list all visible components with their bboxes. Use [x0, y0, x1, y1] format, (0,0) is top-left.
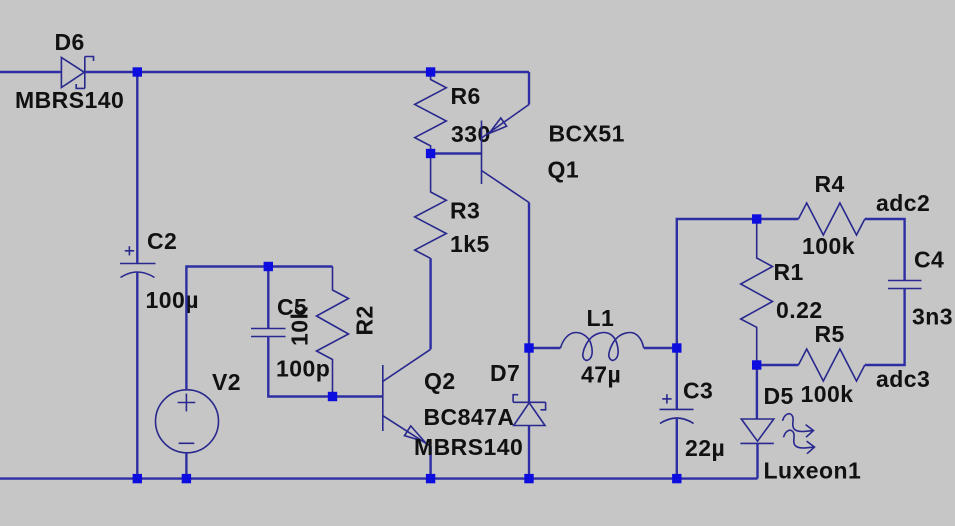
wire R5 left lead — [757, 364, 799, 366]
wire Q1 base — [431, 152, 482, 154]
wire R4 right lead to C4 — [865, 219, 905, 280]
junction node C5 top — [264, 262, 273, 271]
wire top rail left of D6 — [0, 71, 62, 73]
wire output node up — [677, 219, 757, 348]
wire D5 bottom lead — [756, 443, 758, 478]
capacitor C2 — [120, 246, 156, 277]
transistor Q2 — [383, 349, 431, 446]
resistor R2 — [317, 267, 349, 397]
capacitor C3 — [660, 394, 694, 423]
svg-text:100µ: 100µ — [146, 287, 199, 313]
svg-text:D7: D7 — [490, 360, 520, 386]
svg-text:V2: V2 — [212, 369, 241, 395]
svg-text:R1: R1 — [774, 259, 804, 285]
LED D5 — [740, 419, 773, 443]
svg-text:Luxeon1: Luxeon1 — [764, 458, 862, 484]
junction node Q2-rail — [426, 474, 435, 483]
svg-text:R6: R6 — [451, 83, 481, 109]
resistor R4 — [798, 203, 864, 235]
capacitor C4 — [888, 281, 922, 289]
svg-text:22µ: 22µ — [685, 435, 725, 461]
junction node R6-R3-Q1 base — [426, 149, 435, 158]
wire D7 top lead — [528, 348, 530, 402]
wire top rail D6 to corner — [85, 71, 529, 73]
svg-text:adc2: adc2 — [876, 190, 930, 216]
svg-text:10k: 10k — [287, 306, 313, 346]
junction node C2-rail — [133, 474, 142, 483]
svg-text:D6: D6 — [55, 29, 85, 55]
junction node R4-R1 — [752, 214, 761, 223]
wire D5 top lead — [756, 365, 758, 419]
resistor R3 — [415, 154, 447, 259]
junction node R6 top — [426, 67, 435, 76]
transistor Q1 — [482, 105, 530, 203]
svg-text:L1: L1 — [587, 305, 615, 331]
wire Q2 collector to R3 — [429, 258, 431, 349]
svg-text:R2: R2 — [352, 305, 378, 335]
svg-text:MBRS140: MBRS140 — [15, 87, 124, 113]
wire L1 right lead — [644, 347, 677, 349]
svg-text:MBRS140: MBRS140 — [414, 434, 523, 460]
capacitor C5 — [251, 329, 286, 337]
wire V2 bottom lead — [185, 453, 187, 479]
diode D6 — [61, 57, 93, 89]
junction node D6-C2 — [133, 67, 142, 76]
svg-text:C4: C4 — [914, 247, 944, 273]
wire Q1 collector to switch node — [528, 203, 530, 349]
resistor R1 — [741, 219, 773, 365]
wire D7 bottom lead — [528, 426, 530, 479]
wire Q2 emitter to rail — [429, 446, 431, 478]
diode D7 — [513, 395, 546, 426]
junction node R1-R5-D5 — [752, 360, 761, 369]
LED D5 light arrows — [783, 414, 815, 454]
svg-text:0.22: 0.22 — [776, 297, 823, 323]
wire V2 top lead — [186, 267, 332, 391]
junction node switch (Q1-D7-L1) — [524, 343, 533, 352]
svg-text:BCX51: BCX51 — [549, 121, 625, 147]
voltage source V2 — [156, 390, 219, 453]
wire L1 left lead — [529, 347, 561, 349]
wire C3 bottom lead — [676, 418, 678, 479]
wire C5 bottom lead — [268, 337, 332, 397]
wire Q1 emitter from top rail — [528, 72, 530, 105]
wire C5 top lead — [267, 267, 269, 329]
junction node R2-C5-Q2 base — [328, 392, 337, 401]
resistor R6 — [415, 72, 447, 154]
wire bottom ground rail — [0, 477, 758, 479]
svg-text:Q1: Q1 — [548, 157, 580, 183]
wire R4 left lead — [757, 218, 799, 220]
svg-text:R3: R3 — [450, 198, 480, 224]
svg-text:330: 330 — [451, 121, 491, 147]
junction node V2-rail — [182, 474, 191, 483]
svg-text:R4: R4 — [815, 171, 845, 197]
wire C2 top lead — [136, 72, 138, 263]
wire Q2 base — [333, 395, 383, 397]
svg-text:adc3: adc3 — [876, 366, 930, 392]
svg-text:C2: C2 — [147, 228, 177, 254]
svg-text:Q2: Q2 — [424, 368, 456, 394]
svg-text:47µ: 47µ — [581, 362, 621, 388]
svg-text:BC847A: BC847A — [424, 404, 515, 430]
junction node L1-C3 — [672, 343, 681, 352]
junction node D7-rail — [524, 474, 533, 483]
wire C4 bottom lead — [865, 289, 905, 366]
svg-text:C3: C3 — [683, 378, 713, 404]
svg-text:R5: R5 — [815, 321, 845, 347]
svg-text:D5: D5 — [764, 383, 794, 409]
wire C2 bottom lead — [136, 272, 138, 479]
inductor L1 — [561, 333, 644, 361]
svg-text:3n3: 3n3 — [912, 304, 953, 330]
svg-text:100p: 100p — [276, 356, 330, 382]
svg-text:1k5: 1k5 — [450, 231, 490, 257]
junction node C3-rail — [672, 474, 681, 483]
svg-text:100k: 100k — [802, 233, 855, 259]
svg-text:100k: 100k — [801, 381, 854, 407]
resistor R5 — [798, 349, 864, 381]
wire C3 top lead — [676, 348, 678, 409]
